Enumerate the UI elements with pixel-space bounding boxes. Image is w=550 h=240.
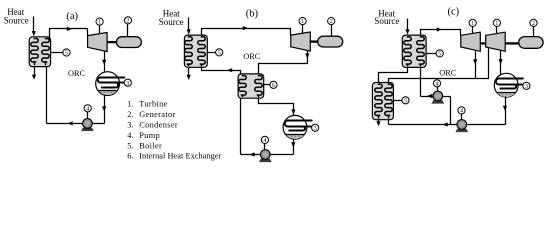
svg-text:(c): (c): [447, 6, 459, 17]
svg-text:(b): (b): [246, 9, 259, 20]
svg-text:2: 2: [126, 19, 129, 25]
svg-text:2: 2: [532, 21, 535, 27]
svg-text:Turbine: Turbine: [139, 100, 168, 109]
svg-text:Generator: Generator: [139, 110, 176, 119]
svg-text:2: 2: [330, 19, 333, 25]
svg-text:5: 5: [218, 51, 221, 57]
svg-text:1: 1: [471, 21, 474, 27]
svg-text:(a): (a): [66, 11, 78, 22]
svg-text:ORC: ORC: [68, 69, 86, 78]
svg-text:1: 1: [495, 21, 498, 27]
svg-text:5: 5: [65, 51, 68, 57]
svg-text:Boiler: Boiler: [139, 141, 162, 150]
svg-text:5: 5: [404, 98, 407, 104]
svg-text:ORC: ORC: [243, 52, 261, 61]
svg-text:4: 4: [263, 138, 266, 144]
svg-text:3: 3: [314, 126, 317, 132]
svg-text:6: 6: [272, 83, 275, 89]
svg-text:3.: 3.: [127, 120, 133, 129]
svg-text:Condenser: Condenser: [139, 120, 178, 129]
svg-text:3: 3: [525, 84, 528, 90]
svg-text:5: 5: [438, 52, 441, 58]
svg-text:4.: 4.: [127, 131, 133, 140]
svg-text:1.: 1.: [127, 100, 133, 109]
svg-text:Source: Source: [159, 17, 184, 27]
svg-text:4: 4: [460, 109, 463, 115]
svg-text:Source: Source: [374, 16, 399, 26]
svg-text:Pump: Pump: [139, 131, 160, 140]
svg-text:6.: 6.: [127, 152, 133, 161]
svg-text:1: 1: [98, 20, 101, 26]
svg-text:1: 1: [301, 19, 304, 25]
svg-text:Source: Source: [4, 16, 29, 26]
svg-text:2.: 2.: [127, 110, 133, 119]
svg-text:3: 3: [126, 81, 129, 87]
svg-text:5.: 5.: [127, 141, 133, 150]
svg-text:Internal Heat Exchanger: Internal Heat Exchanger: [139, 152, 221, 161]
svg-text:ORC: ORC: [439, 69, 457, 78]
